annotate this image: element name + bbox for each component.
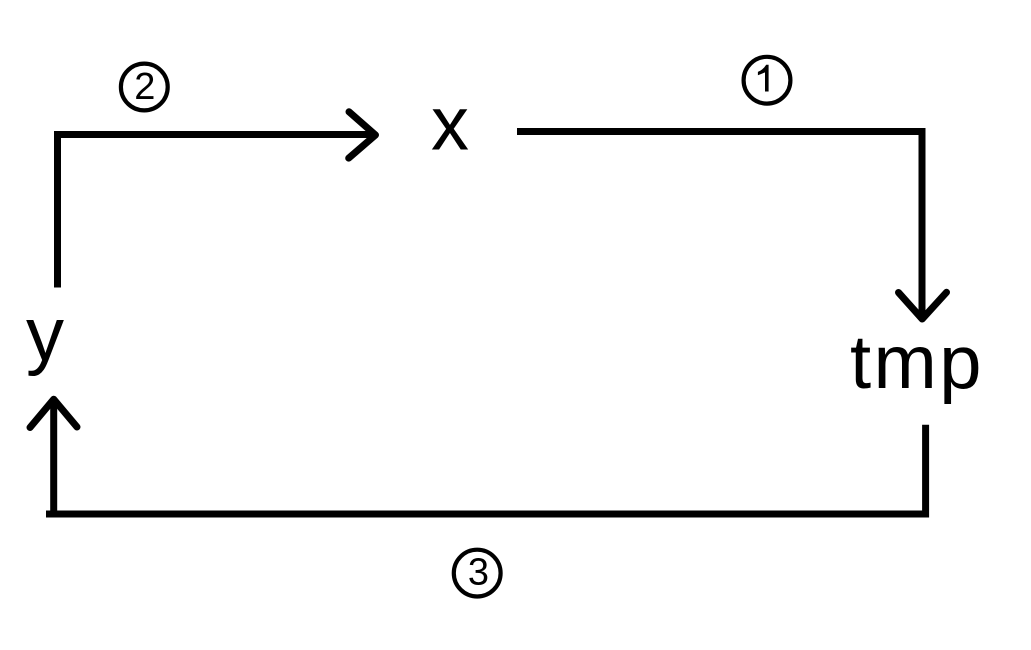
svg-text:tmp: tmp <box>850 320 984 405</box>
circled 3 <box>454 550 501 597</box>
arrow 2 head (points right at x) <box>349 112 376 158</box>
node tmp <box>850 320 984 405</box>
circled 2 <box>121 64 168 111</box>
svg-text:x: x <box>431 82 469 167</box>
svg-text:3: 3 <box>468 552 489 594</box>
arrow 2 wire: y up and right to x <box>58 135 373 288</box>
svg-text:y: y <box>26 292 64 377</box>
circled 1 <box>744 57 791 104</box>
svg-text:2: 2 <box>134 66 155 108</box>
node x <box>431 82 469 167</box>
arrow 3 wire: tmp down and left along bottom <box>46 425 926 514</box>
arrow 3 head (points up at y) <box>30 399 77 427</box>
arrow 1 wire: x right and down to tmp <box>517 132 922 316</box>
node y <box>26 292 64 377</box>
arrow 1 head (points down at tmp) <box>899 292 947 319</box>
arrow 3 wire: left vertical rise to y <box>50 403 57 514</box>
